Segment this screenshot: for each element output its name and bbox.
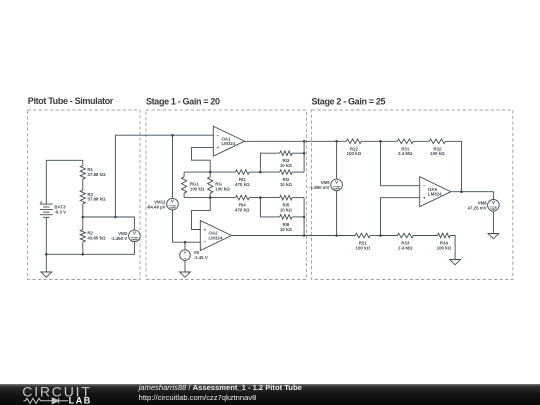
wire R2 leads xyxy=(82,217,84,230)
svg-text:100 kΩ: 100 kΩ xyxy=(347,151,362,156)
wire RG1 bottom lead xyxy=(183,193,185,197)
resistor RI2 xyxy=(280,170,293,187)
wire VM9 top lead xyxy=(336,141,338,179)
wire R33 to R34 xyxy=(413,235,437,237)
ground R34 xyxy=(450,260,461,265)
wire VM2 bottom to ground rail xyxy=(46,242,134,255)
svg-text:43.65 kΩ: 43.65 kΩ xyxy=(87,236,106,241)
wire RI6 to feedback vertical 2 xyxy=(292,216,304,218)
wire R1 to R3 xyxy=(82,179,84,190)
junction OA2 output feedback xyxy=(303,234,306,237)
wire node E to R31 xyxy=(381,140,398,142)
svg-text:37.88 kΩ: 37.88 kΩ xyxy=(87,197,106,202)
wire R3 bottom to node A xyxy=(82,204,84,217)
op-amp OA1 xyxy=(213,126,244,156)
wire RG1 top lead xyxy=(183,172,185,177)
svg-text:100 kΩ: 100 kΩ xyxy=(356,245,371,250)
svg-text:−: − xyxy=(204,240,207,245)
junction VM9 top tap xyxy=(335,140,338,143)
junction battery bottom on ground rail xyxy=(45,253,48,256)
svg-text:100 kΩ: 100 kΩ xyxy=(430,151,445,156)
svg-text:470 kΩ: 470 kΩ xyxy=(235,208,250,213)
resistor R33 xyxy=(397,233,413,250)
wire node F to R33 xyxy=(381,235,398,237)
wire R34 to ground xyxy=(450,236,455,260)
svg-text:-1.45 V: -1.45 V xyxy=(194,255,208,260)
wire top gain rail xyxy=(184,171,235,173)
svg-text:LM324: LM324 xyxy=(222,141,236,146)
junction RG top xyxy=(209,171,212,174)
wire VM9 bottom lead xyxy=(336,191,338,236)
svg-text:-0.3 V: -0.3 V xyxy=(54,210,66,215)
node E junction R22/R31/OA9 inverting xyxy=(379,140,382,143)
svg-text:LM324: LM324 xyxy=(209,236,223,241)
wire R2 bottom to ground rail xyxy=(82,242,84,254)
svg-text:LAB: LAB xyxy=(69,396,92,405)
battery BAT3 xyxy=(40,201,67,217)
resistor R34 xyxy=(437,233,452,250)
wire battery top to R1 top xyxy=(46,160,83,204)
junction OA9 output feedback xyxy=(460,190,463,193)
svg-text:+: + xyxy=(204,228,207,233)
svg-text:−: − xyxy=(217,134,220,139)
svg-text:100 kΩ: 100 kΩ xyxy=(437,245,452,250)
ground VM8 xyxy=(488,234,499,239)
svg-text:+: + xyxy=(40,201,43,206)
wire node D down to RI6 xyxy=(260,198,279,217)
svg-text:−: − xyxy=(423,185,426,190)
wire junction to VM12 top xyxy=(172,135,174,198)
wire node A to node B xyxy=(83,216,116,218)
resistor RG1 xyxy=(182,177,205,193)
dashed section box: Stage 1 xyxy=(146,110,307,280)
junction V6 tap xyxy=(184,241,187,244)
svg-text:10 kΩ: 10 kΩ xyxy=(280,208,293,213)
node C junction RI1/RI2/RI3 xyxy=(259,171,262,174)
voltmeter VM8 xyxy=(468,200,500,212)
wire RI2 to feedback vertical xyxy=(292,171,304,173)
wire node F up to OA9 non-inverting input xyxy=(381,198,420,236)
resistor R22 xyxy=(346,139,361,156)
wire RI1 to node C xyxy=(249,171,260,173)
wire RG bottom lead xyxy=(209,193,211,197)
voltage source V6 xyxy=(180,242,208,272)
wire RI5 to feedback vertical 2 xyxy=(292,197,304,199)
wire node B to VM2 top xyxy=(115,217,134,230)
junction signal to VM12 xyxy=(171,134,174,137)
wire bottom gain rail xyxy=(184,197,235,199)
svg-text:jamesharris88 / Assessment_1 -: jamesharris88 / Assessment_1 - 1.2 Pitot… xyxy=(138,383,302,392)
wire node E down to OA9 inverting input xyxy=(381,141,420,185)
voltmeter VM9 xyxy=(309,179,342,191)
svg-text:2.4 MΩ: 2.4 MΩ xyxy=(398,151,413,156)
svg-text:+: + xyxy=(184,251,187,256)
resistor R3 xyxy=(80,190,106,204)
wire R31 to R32 xyxy=(413,140,429,142)
wire VM8 to ground xyxy=(492,211,494,234)
junction VM9 bottom tap xyxy=(335,234,338,237)
wire VM12 bottom to OA2 inverting input xyxy=(173,210,201,243)
voltmeter VM12 xyxy=(146,198,178,210)
wire RG top lead xyxy=(209,172,211,177)
resistor R32 xyxy=(429,139,445,156)
svg-text:-1.450 V: -1.450 V xyxy=(111,236,128,241)
node A junction R3/R2 xyxy=(82,216,85,219)
junction R2 bottom on ground rail xyxy=(82,253,85,256)
wire R22 to node E xyxy=(361,140,380,142)
resistor RI4 xyxy=(235,195,250,212)
node B junction to stage 1 xyxy=(114,216,117,219)
resistor RI5 xyxy=(280,195,293,212)
wire R32 down to OA9 output xyxy=(445,141,461,191)
svg-text:10 kΩ: 10 kΩ xyxy=(280,182,293,187)
resistor RI3 xyxy=(280,151,293,168)
wire OA1 non-inverting input to RG top rail xyxy=(192,147,214,172)
resistor R2 xyxy=(80,230,106,242)
junction OA1 output feedback xyxy=(303,140,306,143)
wire node D to RI5 xyxy=(260,197,279,199)
CircuitLab logo: resistor-diode symbol xyxy=(24,398,69,404)
resistor R31 xyxy=(397,139,413,156)
svg-text:Stage 2 - Gain = 25: Stage 2 - Gain = 25 xyxy=(312,96,386,106)
dashed section box: Stage 2 xyxy=(312,110,513,280)
svg-text:+: + xyxy=(423,197,426,202)
wire OA1 feedback vertical xyxy=(303,141,305,172)
wire OA2 output to stage 2 xyxy=(232,235,356,237)
resistor R1 xyxy=(80,166,106,180)
svg-text:+: + xyxy=(217,146,220,151)
svg-text:100 kΩ: 100 kΩ xyxy=(190,186,205,191)
wire RI4 to node D xyxy=(249,197,260,199)
svg-text:37.88 kΩ: 37.88 kΩ xyxy=(87,172,106,177)
wire RI3 to feedback vertical xyxy=(292,152,304,154)
svg-text:100 kΩ: 100 kΩ xyxy=(215,186,230,191)
junction RG bottom xyxy=(209,196,212,199)
ground pitot xyxy=(41,272,52,277)
wire ground rail to ground xyxy=(45,254,47,272)
svg-text:2.4 MΩ: 2.4 MΩ xyxy=(398,245,413,250)
node D junction RI4/RI5/RI6 xyxy=(259,196,262,199)
svg-text:Stage 1 - Gain = 20: Stage 1 - Gain = 20 xyxy=(146,96,220,106)
wire OA9 output xyxy=(452,192,494,200)
svg-text:470 kΩ: 470 kΩ xyxy=(235,182,250,187)
resistor RG xyxy=(208,177,231,193)
wire node C to RI2 xyxy=(260,171,279,173)
svg-text:http://circuitlab.com/czz7qkzt: http://circuitlab.com/czz7qkztnnav8 xyxy=(139,393,257,402)
svg-text:10 kΩ: 10 kΩ xyxy=(280,227,293,232)
svg-text:LM324: LM324 xyxy=(428,192,442,197)
svg-text:47.25 mV: 47.25 mV xyxy=(468,206,487,211)
junction RI6 on feedback vertical 2 xyxy=(303,216,306,219)
wire OA2 non-inverting input to RG bottom rail xyxy=(192,198,211,230)
op-amp OA2 xyxy=(200,221,231,251)
wire node C up to RI3 xyxy=(260,153,279,172)
resistor RI1 xyxy=(235,170,250,187)
svg-text:-1.890 mV: -1.890 mV xyxy=(309,185,330,190)
svg-text:10 kΩ: 10 kΩ xyxy=(280,163,293,168)
op-amp OA9 xyxy=(420,177,451,207)
resistor R21 xyxy=(355,233,370,250)
wire OA1 output to stage 2 xyxy=(245,140,347,142)
ground V6 xyxy=(180,272,191,277)
resistor RI6 xyxy=(280,215,293,232)
junction RI3 on feedback vertical xyxy=(303,152,306,155)
wire OA2 feedback vertical xyxy=(303,198,305,236)
node F junction R21/R33/OA9 non-inverting xyxy=(379,234,382,237)
svg-text:Pitot Tube - Simulator: Pitot Tube - Simulator xyxy=(28,96,114,106)
wire R21 to node F xyxy=(370,235,380,237)
wire node B up to OA1 inverting input xyxy=(115,135,213,217)
svg-text:-84.49 µV: -84.49 µV xyxy=(146,204,165,209)
voltmeter VM2 xyxy=(111,230,141,242)
wire battery bottom xyxy=(45,217,47,254)
dashed section box: Pitot Tube - Simulator xyxy=(28,110,141,280)
